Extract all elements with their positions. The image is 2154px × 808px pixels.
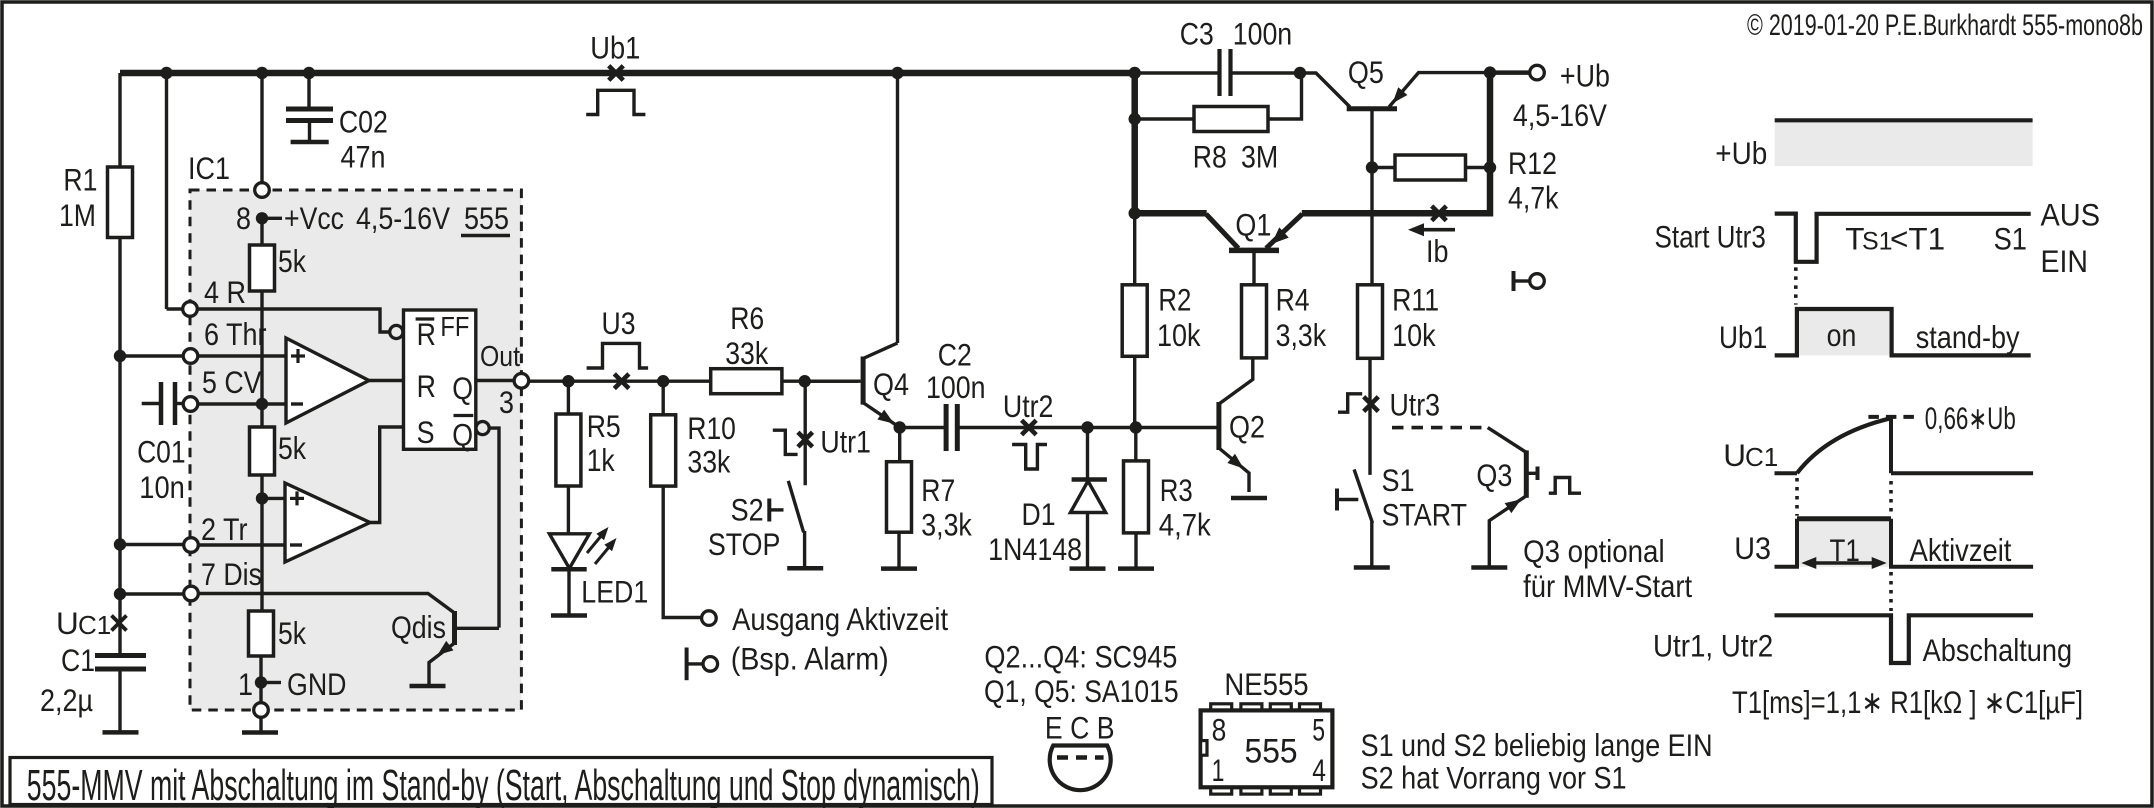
- svg-text:© 2019-01-20 P.E.Burkhardt 555: © 2019-01-20 P.E.Burkhardt 555-mono8b: [1747, 9, 2143, 42]
- svg-text:Ib: Ib: [1426, 233, 1449, 269]
- svg-text:Qdis: Qdis: [391, 609, 446, 645]
- svg-text:E C B: E C B: [1045, 710, 1115, 746]
- svg-text:8: 8: [1212, 712, 1227, 748]
- svg-text:S2: S2: [731, 492, 764, 528]
- svg-text:Start Utr3: Start Utr3: [1655, 219, 1766, 255]
- svg-text:5 CV: 5 CV: [202, 364, 262, 400]
- svg-text:IC1: IC1: [188, 150, 230, 186]
- svg-text:C02: C02: [339, 103, 388, 139]
- svg-text:Q: Q: [452, 417, 473, 453]
- svg-text:1k: 1k: [587, 442, 615, 478]
- svg-text:Abschaltung: Abschaltung: [1923, 632, 2073, 668]
- svg-text:Q2...Q4: SC945: Q2...Q4: SC945: [984, 639, 1177, 675]
- svg-text:D1: D1: [1022, 496, 1056, 532]
- svg-text:LED1: LED1: [581, 573, 648, 609]
- svg-text:U: U: [56, 605, 79, 641]
- svg-text:S1 und S2 beliebig lange EIN: S1 und S2 beliebig lange EIN: [1361, 727, 1713, 763]
- svg-text:GND: GND: [287, 666, 347, 702]
- svg-text:5k: 5k: [278, 430, 306, 466]
- svg-text:C3: C3: [1180, 15, 1214, 51]
- svg-text:Q3: Q3: [1476, 457, 1512, 493]
- svg-text:555-MMV mit Abschaltung im Sta: 555-MMV mit Abschaltung im Stand-by (Sta…: [27, 761, 980, 808]
- svg-text:4,7k: 4,7k: [1159, 507, 1211, 543]
- svg-text:Q3 optional: Q3 optional: [1523, 533, 1665, 569]
- svg-text:U: U: [1723, 437, 1746, 473]
- svg-text:0,66∗Ub: 0,66∗Ub: [1925, 400, 2016, 436]
- svg-text:C1: C1: [78, 610, 111, 640]
- svg-text:100n: 100n: [1233, 15, 1293, 51]
- svg-text:U3: U3: [1734, 530, 1771, 566]
- svg-text:10n: 10n: [139, 469, 185, 505]
- svg-text:3M: 3M: [1241, 139, 1278, 175]
- svg-text:2 Tr: 2 Tr: [201, 511, 248, 547]
- svg-text:+Ub: +Ub: [1560, 58, 1610, 94]
- svg-text:3,3k: 3,3k: [921, 507, 972, 543]
- svg-text:8: 8: [236, 200, 251, 236]
- svg-text:1N4148: 1N4148: [988, 531, 1082, 567]
- svg-text:AUS: AUS: [2041, 197, 2101, 233]
- svg-text:+Vcc: +Vcc: [284, 200, 344, 236]
- svg-text:R6: R6: [730, 300, 764, 336]
- svg-text:NE555: NE555: [1224, 666, 1308, 702]
- svg-text:4,5-16V: 4,5-16V: [356, 200, 450, 236]
- svg-text:EIN: EIN: [2041, 243, 2089, 279]
- svg-text:S1: S1: [1862, 228, 1893, 256]
- svg-text:Q2: Q2: [1229, 408, 1265, 444]
- svg-text:4,7k: 4,7k: [1508, 179, 1559, 215]
- svg-text:4: 4: [1312, 752, 1326, 788]
- svg-text:33k: 33k: [687, 444, 730, 480]
- svg-text:Q5: Q5: [1348, 54, 1384, 90]
- svg-text:2,2µ: 2,2µ: [40, 682, 93, 718]
- svg-text:C01: C01: [137, 434, 186, 470]
- svg-text:Ausgang Aktivzeit: Ausgang Aktivzeit: [732, 601, 948, 637]
- svg-text:C2: C2: [938, 337, 972, 373]
- svg-text:5k: 5k: [278, 615, 306, 651]
- svg-text:START: START: [1382, 496, 1468, 532]
- svg-text:Utr3: Utr3: [1390, 386, 1441, 422]
- svg-text:on: on: [1827, 317, 1857, 353]
- svg-text:4,5-16V: 4,5-16V: [1513, 97, 1607, 133]
- svg-text:47n: 47n: [341, 139, 386, 175]
- svg-text:S: S: [417, 414, 435, 450]
- svg-text:R7: R7: [921, 472, 955, 508]
- svg-text:(Bsp. Alarm): (Bsp. Alarm): [731, 640, 889, 676]
- svg-text:R8: R8: [1193, 139, 1227, 175]
- svg-text:Out: Out: [480, 341, 520, 373]
- svg-text:U3: U3: [602, 305, 636, 341]
- svg-text:S1: S1: [1994, 221, 2027, 257]
- svg-text:Ub1: Ub1: [590, 30, 640, 66]
- svg-text:T1[ms]=1,1∗ R1[kΩ ] ∗C1[µF]: T1[ms]=1,1∗ R1[kΩ ] ∗C1[µF]: [1732, 684, 2083, 720]
- svg-text:+Ub: +Ub: [1715, 135, 1767, 171]
- svg-text:stand-by: stand-by: [1916, 319, 2020, 355]
- svg-text:1: 1: [238, 666, 253, 702]
- svg-text:3: 3: [499, 384, 514, 420]
- svg-text:Utr2: Utr2: [1003, 388, 1054, 424]
- svg-text:C1: C1: [61, 642, 95, 678]
- svg-text:R10: R10: [687, 410, 736, 446]
- svg-text:Ub1: Ub1: [1719, 319, 1767, 355]
- svg-text:<T1: <T1: [1890, 221, 1945, 257]
- svg-text:FF: FF: [440, 311, 469, 342]
- svg-text:Utr1: Utr1: [820, 423, 871, 459]
- svg-text:R12: R12: [1508, 145, 1557, 181]
- svg-text:3,3k: 3,3k: [1276, 317, 1327, 353]
- svg-text:4 R: 4 R: [204, 274, 246, 310]
- svg-text:1: 1: [1212, 752, 1225, 788]
- svg-text:Q4: Q4: [873, 366, 909, 402]
- svg-text:R5: R5: [587, 408, 621, 444]
- svg-text:Q1, Q5: SA1015: Q1, Q5: SA1015: [984, 673, 1179, 709]
- svg-text:STOP: STOP: [708, 526, 781, 562]
- svg-text:R1: R1: [63, 162, 97, 198]
- svg-text:R3: R3: [1160, 472, 1193, 508]
- svg-text:für MMV-Start: für MMV-Start: [1523, 568, 1692, 604]
- svg-text:R: R: [417, 316, 436, 352]
- svg-text:Utr1, Utr2: Utr1, Utr2: [1653, 628, 1773, 664]
- svg-text:5: 5: [1312, 712, 1325, 748]
- svg-text:555: 555: [1245, 733, 1298, 771]
- svg-text:S1: S1: [1382, 462, 1415, 498]
- svg-text:R2: R2: [1158, 282, 1191, 318]
- svg-text:33k: 33k: [725, 335, 768, 371]
- svg-text:1M: 1M: [59, 197, 96, 233]
- svg-text:Q1: Q1: [1235, 207, 1271, 243]
- svg-text:10k: 10k: [1157, 317, 1201, 353]
- svg-text:555: 555: [464, 200, 509, 236]
- svg-text:5k: 5k: [278, 243, 306, 279]
- svg-text:S2 hat Vorrang vor S1: S2 hat Vorrang vor S1: [1361, 760, 1627, 796]
- svg-text:R4: R4: [1276, 282, 1310, 318]
- svg-text:R: R: [417, 368, 436, 404]
- svg-text:R11: R11: [1392, 282, 1439, 318]
- svg-text:6 Thr: 6 Thr: [204, 316, 267, 352]
- svg-text:7 Dis: 7 Dis: [201, 556, 262, 592]
- svg-text:10k: 10k: [1392, 317, 1436, 353]
- svg-text:C1: C1: [1745, 442, 1778, 472]
- svg-text:Q: Q: [452, 370, 473, 406]
- svg-text:Aktivzeit: Aktivzeit: [1910, 532, 2012, 568]
- svg-text:100n: 100n: [926, 369, 986, 405]
